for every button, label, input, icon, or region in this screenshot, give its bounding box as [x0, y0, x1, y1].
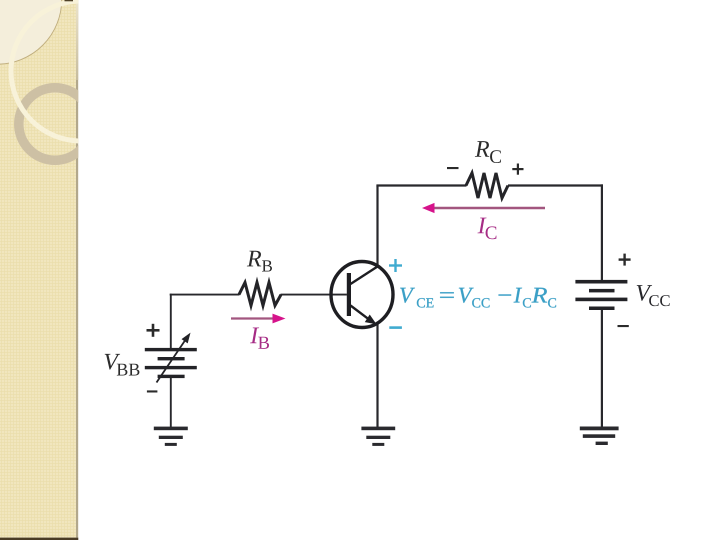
plus sign VCC	[619, 254, 631, 266]
resistor RC	[466, 173, 508, 198]
wire top left segment	[376, 184, 466, 186]
current arrow IB	[231, 314, 286, 324]
battery VBB	[145, 348, 197, 378]
current arrow IC	[422, 203, 545, 213]
variable arrow through VBB	[157, 333, 191, 383]
minus sign VCC	[618, 325, 629, 327]
decorative cream ring	[11, 1, 151, 141]
sidebar edge strip	[76, 0, 78, 538]
wire VCC lower vertical	[601, 309, 603, 427]
ground below VCC	[580, 427, 619, 446]
wire base left segment	[170, 294, 240, 296]
wire emitter vertical	[376, 324, 378, 428]
ground below emitter	[361, 427, 395, 446]
wire collector vertical	[376, 186, 378, 265]
cyan minus at emitter	[389, 326, 402, 329]
plus sign VBB	[147, 324, 160, 337]
label IB	[250, 327, 269, 348]
label VCC	[637, 285, 670, 306]
wire VBB lower vertical	[170, 377, 172, 427]
label RB	[247, 251, 272, 272]
label IC	[478, 218, 497, 240]
wire VCC upper vertical	[601, 184, 603, 280]
battery VCC	[575, 280, 627, 310]
minus sign VBB	[147, 390, 158, 392]
decorative gray ring	[19, 88, 91, 160]
label RC	[475, 141, 501, 163]
wire VBB upper vertical	[170, 294, 172, 350]
sidebar top dark tab	[65, 0, 74, 1]
decorative light corner disc	[0, 0, 62, 64]
sidebar bottom dark bar	[0, 538, 78, 540]
minus sign left of RC	[447, 167, 459, 169]
plus sign right of RC	[512, 164, 523, 175]
resistor RB	[239, 283, 281, 306]
cyan plus at collector	[389, 259, 402, 272]
equation VCE = VCC - ICRC	[400, 288, 556, 308]
wire base right segment	[281, 294, 347, 296]
label VBB	[105, 354, 140, 376]
transistor Q1	[331, 262, 393, 328]
wire top right segment	[508, 184, 603, 186]
ground below VBB	[154, 427, 188, 446]
slide sidebar background	[0, 0, 151, 540]
